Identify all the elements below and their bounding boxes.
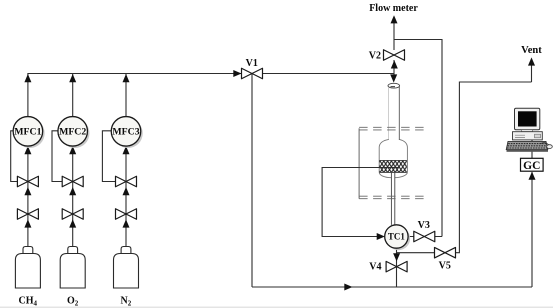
furnace left edge bbox=[358, 128, 360, 198]
wire thermocouple loop from bed to TC1 bbox=[322, 168, 398, 237]
MFC2 controller circle bbox=[58, 117, 90, 149]
valve upper N2 line bbox=[116, 176, 137, 187]
computer workstation icon bbox=[506, 108, 552, 152]
svg-text:V2: V2 bbox=[369, 50, 381, 61]
svg-text:TC1: TC1 bbox=[388, 232, 406, 242]
valve lower N2 line bbox=[116, 209, 137, 220]
valve V5 bbox=[435, 247, 456, 258]
arrow down into V4 bbox=[393, 253, 400, 261]
furnace bottom dashed edge bbox=[359, 196, 428, 199]
TC1 controller circle bbox=[385, 225, 410, 250]
GC box bbox=[521, 158, 544, 172]
valve lower CH4 line bbox=[17, 209, 38, 220]
wire main header line from MFC columns to V2 drop bbox=[27, 73, 394, 75]
arrow O2 column into lower valve bbox=[69, 219, 76, 227]
svg-text:MFC1: MFC1 bbox=[14, 127, 41, 138]
valve lower O2 line bbox=[62, 209, 83, 220]
arrow CH4 column into valve below MFC1 bbox=[24, 187, 31, 195]
wire CH4 column vertical bbox=[27, 74, 29, 247]
svg-text:V1: V1 bbox=[246, 58, 258, 69]
valve V2 bbox=[384, 50, 405, 61]
wire V2 riser to flow meter bbox=[393, 22, 395, 50]
arrow CH4 column into MFC1 bbox=[24, 146, 31, 154]
arrow into TC1 bbox=[377, 233, 385, 240]
joint shading bbox=[391, 86, 396, 88]
valve upper O2 line bbox=[62, 176, 83, 187]
reactor inlet tube walls bbox=[398, 87, 400, 140]
svg-text:V3: V3 bbox=[418, 220, 430, 231]
catalyst bed bbox=[379, 160, 406, 172]
wire bottom bus from V1 to GC riser bbox=[252, 286, 532, 288]
valve upper CH4 line bbox=[17, 176, 38, 187]
reactor joint ellipse bbox=[388, 83, 400, 88]
arrow header into valve V1 bbox=[233, 70, 241, 77]
furnace top dashed edge bbox=[359, 127, 428, 130]
arrow down into reactor joint bbox=[390, 74, 397, 82]
arrow to vent bbox=[528, 57, 535, 65]
scan artifact bottom edge bbox=[0, 306, 553, 308]
svg-text:V4: V4 bbox=[369, 261, 381, 272]
arrow up into GC bbox=[529, 172, 536, 180]
valve V3 bbox=[414, 231, 435, 242]
arrow bottom bus rightward bbox=[344, 284, 352, 291]
svg-text:MFC2: MFC2 bbox=[59, 127, 86, 138]
wire MFC2 bypass loop bbox=[52, 131, 62, 182]
wire MFC1 bypass loop bbox=[11, 131, 18, 182]
svg-text:Vent: Vent bbox=[521, 45, 542, 56]
valve V1 bbox=[242, 68, 263, 79]
wire V5 branch bbox=[397, 82, 532, 253]
wire N2 column vertical bbox=[125, 74, 127, 247]
arrow to flow meter bbox=[391, 15, 398, 23]
arrow N2 column into lower valve bbox=[123, 219, 130, 227]
gas cylinder O2 bbox=[60, 247, 85, 289]
arrow O2 column into valve below MFC2 bbox=[69, 187, 76, 195]
wire O2 column vertical bbox=[72, 74, 74, 247]
wire GC to computer bbox=[531, 108, 533, 158]
wire GC riser from bottom bus bbox=[531, 172, 533, 287]
wire flow meter branch from V2 riser to V3 riser bbox=[394, 40, 442, 237]
wire V1 drop line down to bottom bus bbox=[251, 74, 253, 287]
wire vent riser bbox=[531, 64, 533, 82]
svg-text:GC: GC bbox=[523, 160, 540, 172]
arrow CH4 column into lower valve bbox=[24, 219, 31, 227]
svg-text:Flow meter: Flow meter bbox=[369, 3, 418, 14]
gas cylinder N2 bbox=[114, 247, 139, 289]
arrow O2 column into header bbox=[69, 74, 76, 82]
arrow N2 column into MFC3 bbox=[123, 146, 130, 154]
arrow CH4 column into header bbox=[24, 74, 31, 82]
svg-text:MFC3: MFC3 bbox=[112, 127, 139, 138]
arrow up into V2 bbox=[391, 60, 398, 68]
MFC1 controller circle bbox=[13, 117, 45, 149]
wire TC1 to V3 and up to flow meter branch bbox=[408, 236, 442, 238]
arrow N2 column into valve below MFC3 bbox=[123, 187, 130, 195]
wire TC1 down through V4 to bottom bus bbox=[396, 248, 398, 287]
wire V2 to main junction bbox=[393, 60, 395, 79]
arrow O2 column into MFC2 bbox=[69, 146, 76, 154]
reactor outlet tube walls bbox=[391, 173, 394, 225]
gas cylinder CH4 bbox=[15, 247, 40, 289]
wire MFC3 bypass loop bbox=[102, 131, 115, 182]
arrow N2 column into header bbox=[123, 74, 130, 82]
reactor bulb body bbox=[379, 139, 407, 177]
MFC3 controller circle bbox=[111, 117, 143, 149]
valve V4 bbox=[386, 261, 407, 272]
svg-text:V5: V5 bbox=[439, 261, 451, 272]
